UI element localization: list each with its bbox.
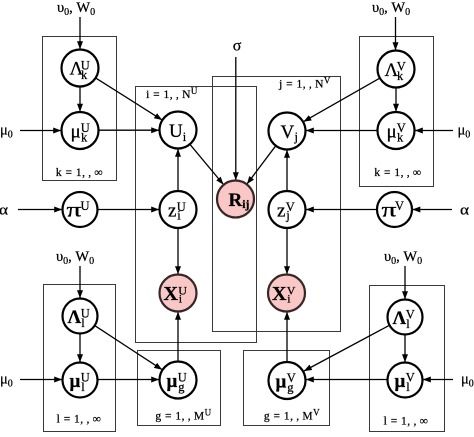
node V_j xyxy=(269,113,306,150)
wire mu_l^V to mu_g^V xyxy=(306,379,388,381)
svg-text:μ0: μ0 xyxy=(0,372,13,390)
svg-text:U: U xyxy=(169,121,183,142)
node Lambda_k^U xyxy=(62,50,99,87)
svg-text:i: i xyxy=(177,209,181,223)
svg-text:z: z xyxy=(277,201,285,222)
svg-text:V: V xyxy=(281,122,295,143)
svg-text:g = 1, , MU: g = 1, , MU xyxy=(155,408,211,423)
plate g=1..M^V xyxy=(244,351,330,426)
svg-text:α: α xyxy=(460,203,469,219)
wire V_j to R_ij xyxy=(247,146,276,184)
svg-text:l: l xyxy=(81,316,85,330)
label v0,W0 bottom-right xyxy=(384,249,422,267)
svg-text:μ: μ xyxy=(70,371,81,392)
node X_j^V (observed, pink) xyxy=(268,275,305,312)
svg-text:V: V xyxy=(395,199,404,213)
svg-text:l: l xyxy=(406,380,410,394)
wire pi^V to z_j^V xyxy=(306,209,377,211)
wire v0W0 to Lambda_l^V xyxy=(404,266,406,299)
svg-text:μ0: μ0 xyxy=(458,123,471,141)
label v0,W0 top-left xyxy=(57,0,95,18)
plate l=1..inf (U side) xyxy=(44,285,116,432)
wire Lambda_k^V to mu_k^V xyxy=(395,88,397,112)
svg-text:ij: ij xyxy=(242,199,249,211)
svg-text:π: π xyxy=(67,200,82,222)
plate g=1..M^U xyxy=(138,351,221,426)
svg-text:Λ: Λ xyxy=(393,308,407,329)
wire z_j^V to V_j xyxy=(286,150,288,191)
label mu_0 right-bottom xyxy=(461,372,474,390)
wire v0W0 to Lambda_k^U xyxy=(79,17,81,49)
svg-text:j = 1, , NV: j = 1, , NV xyxy=(278,76,331,91)
svg-text:l = 1, , ∞: l = 1, , ∞ xyxy=(57,414,102,426)
label mu_0 left-top xyxy=(0,123,13,141)
node R_ij (observed, pink) xyxy=(217,181,254,218)
label v0,W0 top-right xyxy=(372,0,410,18)
svg-text:υ0, W0: υ0, W0 xyxy=(384,249,422,267)
svg-text:g: g xyxy=(178,380,185,394)
svg-text:k = 1, , ∞: k = 1, , ∞ xyxy=(56,167,103,179)
node pi^U xyxy=(63,192,98,227)
wire v0W0 to Lambda_k^V xyxy=(395,17,397,50)
wire alpha to pi^U xyxy=(18,209,62,211)
svg-text:μ: μ xyxy=(71,122,81,143)
node mu_k^U xyxy=(62,112,99,149)
wire Lambda_l^U to mu_g^U xyxy=(95,326,162,370)
wire v0W0 to Lambda_l^U xyxy=(79,266,81,298)
wire mu_k^U to U_i xyxy=(99,129,160,131)
svg-text:k: k xyxy=(81,131,88,145)
node Lambda_l^V (bold) xyxy=(388,300,423,335)
label sigma xyxy=(233,38,242,55)
wire mu_k^V to V_j xyxy=(306,130,378,132)
svg-text:X: X xyxy=(272,283,287,305)
svg-text:μ0: μ0 xyxy=(461,372,474,390)
svg-text:k = 1, , ∞: k = 1, , ∞ xyxy=(374,167,421,179)
wire Lambda_l^U to mu_l^U xyxy=(79,334,81,363)
svg-text:σ: σ xyxy=(233,38,242,55)
node mu_k^V xyxy=(378,112,415,149)
svg-text:l: l xyxy=(406,317,410,331)
node z_i^U xyxy=(160,191,197,228)
svg-text:l = 1, , ∞: l = 1, , ∞ xyxy=(384,416,429,428)
wire Lambda_l^V to mu_g^V xyxy=(304,326,389,371)
svg-text:υ0, W0: υ0, W0 xyxy=(56,249,94,267)
plate k=1..inf (U side) xyxy=(43,37,117,181)
wire z_j^V to X_j^V xyxy=(286,228,288,274)
wire pi^U to z_i^U xyxy=(98,209,160,211)
svg-text:μ: μ xyxy=(395,371,406,392)
plate k=1..inf (V side) xyxy=(360,37,434,187)
wire mu0 to mu_l^V xyxy=(423,379,453,381)
svg-text:Λ: Λ xyxy=(68,307,82,328)
wire mu_l^U to mu_g^U xyxy=(98,379,160,381)
wire mu0 to mu_k^V xyxy=(415,130,453,132)
node z_j^V xyxy=(269,191,306,228)
wire mu_g^V to X_j^V xyxy=(286,312,288,362)
label mu_0 right-top xyxy=(458,123,471,141)
svg-text:l: l xyxy=(81,380,85,394)
wire mu0 to mu_k^U xyxy=(20,130,61,132)
svg-text:U: U xyxy=(81,199,90,213)
svg-text:X: X xyxy=(164,283,179,305)
svg-text:g: g xyxy=(287,381,294,395)
label alpha right xyxy=(460,203,469,219)
svg-text:μ: μ xyxy=(276,372,287,393)
wire z_i^U to X_i^U xyxy=(177,228,179,274)
wire Lambda_l^V to mu_l^V xyxy=(404,335,406,363)
node mu_l^V (bold) xyxy=(388,363,423,398)
svg-text:k: k xyxy=(81,68,88,82)
label v0,W0 bottom-left xyxy=(56,249,94,267)
svg-text:j: j xyxy=(285,209,289,223)
wire Lambda_k^U to mu_k^U xyxy=(79,87,81,112)
wire sigma to R_ij xyxy=(235,57,237,180)
svg-text:υ0, W0: υ0, W0 xyxy=(372,0,410,18)
svg-text:z: z xyxy=(168,201,176,222)
wire U_i to R_ij xyxy=(190,144,224,184)
node X_i^U (observed, pink) xyxy=(160,275,197,312)
svg-text:υ0, W0: υ0, W0 xyxy=(57,0,95,18)
wire Lambda_k^U to U_i xyxy=(96,78,162,120)
node mu_g^U (bold) xyxy=(160,362,197,399)
svg-text:μ: μ xyxy=(167,371,178,392)
label alpha left xyxy=(0,203,8,219)
svg-text:i = 1, , NU: i = 1, , NU xyxy=(146,86,198,101)
svg-text:k: k xyxy=(397,69,404,83)
svg-text:k: k xyxy=(397,131,404,145)
label mu_0 left-bottom xyxy=(0,372,13,390)
wire Lambda_k^V to V_j xyxy=(304,78,380,122)
svg-text:μ0: μ0 xyxy=(0,123,13,141)
svg-text:i: i xyxy=(183,130,187,144)
node U_i xyxy=(160,112,197,149)
svg-text:α: α xyxy=(0,203,8,219)
node Lambda_k^V xyxy=(378,51,415,88)
wire mu_g^U to X_i^U xyxy=(177,312,179,362)
plate l=1..inf (V side) xyxy=(370,286,445,432)
svg-text:g = 1, , MV: g = 1, , MV xyxy=(264,408,320,423)
node mu_l^U (bold) xyxy=(63,363,98,398)
plate i=1..N^U xyxy=(136,86,257,343)
node Lambda_l^U (bold) xyxy=(63,299,98,334)
wire alpha to pi^V xyxy=(413,209,453,211)
svg-text:j: j xyxy=(294,130,298,144)
svg-text:R: R xyxy=(229,190,243,211)
node pi^V xyxy=(377,192,412,227)
wire mu0 to mu_l^U xyxy=(20,379,62,381)
node mu_g^V (bold) xyxy=(269,362,306,399)
svg-text:μ: μ xyxy=(387,122,397,143)
wire z_i^U to U_i xyxy=(177,149,179,191)
plate j=1..N^V xyxy=(213,76,341,332)
